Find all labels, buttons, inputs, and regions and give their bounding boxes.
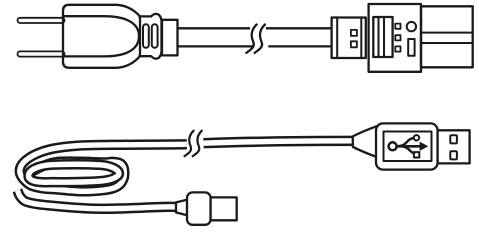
power cable top edge (right of break) — [266, 27, 332, 29]
inline connector pin window 1 — [351, 30, 357, 36]
power plug body taper/collar contour — [140, 14, 162, 59]
adapter vent line 1 — [378, 17, 380, 57]
power cable top edge (left of break) — [178, 27, 251, 29]
device connector metal shell — [211, 197, 237, 220]
power plug inner dome — [63, 16, 139, 56]
usb cable big coil ring (white core) — [20, 144, 187, 191]
usb plug label plate — [384, 132, 432, 162]
usb cable inner coil ellipse (outer black) — [29, 164, 120, 182]
usb cable break mark 1 — [185, 131, 194, 157]
usb trident main stem — [397, 145, 422, 148]
power plug rib slot 1 — [143, 24, 149, 48]
power plug body outline — [63, 5, 140, 68]
inline connector pin window 2 — [351, 41, 357, 47]
adapter indicator square 1 — [395, 24, 400, 29]
usb trident big circle — [389, 142, 397, 150]
adapter slot rectangle — [408, 39, 414, 56]
power plug prong (bottom) — [18, 51, 65, 56]
inline connector right band line — [360, 18, 362, 59]
usb trident upper branch — [400, 138, 414, 146]
device connector body — [187, 192, 211, 224]
usb plug boot funnel — [353, 126, 378, 157]
usb trident upper circle — [414, 135, 419, 140]
adapter indicator square 3 — [395, 46, 400, 51]
usb trident lower square — [414, 152, 419, 157]
usb cable inner coil ellipse (white core) — [29, 164, 120, 182]
adapter rear block line 1 — [421, 32, 473, 34]
power plug strain relief — [162, 20, 178, 56]
power cable break mark 2 — [255, 25, 265, 53]
adapter rear block — [421, 6, 473, 67]
usb trident arrowhead — [420, 142, 429, 151]
usb trident lower branch — [404, 147, 415, 154]
usb cable straight section to plug (outer black) — [204, 141, 365, 143]
adapter rear block line 2 — [421, 42, 473, 44]
power cable bottom edge (right of break) — [268, 45, 332, 47]
adapter main body — [369, 4, 421, 72]
adapter indicator square 2 — [395, 35, 400, 40]
power cable bottom edge (left of break) — [178, 45, 253, 47]
inline connector left band line — [336, 18, 338, 59]
usb cable break mark 2 — [193, 131, 202, 157]
inline connector body — [332, 18, 366, 59]
power plug prong (top) — [18, 18, 65, 23]
usb cable big coil ring (outer black) — [20, 144, 187, 191]
device connector collar — [176, 200, 188, 216]
usb cable exit sweep (outer black) — [18, 190, 177, 208]
power cable break mark 1 — [246, 25, 256, 53]
adapter vent group frame — [373, 17, 392, 57]
adapter vent line 2 — [383, 17, 385, 57]
usb shell hole 2 — [450, 151, 457, 159]
usb plug body — [376, 123, 438, 169]
power plug rib slot 2 — [152, 24, 158, 48]
usb plug metal shell — [438, 130, 470, 163]
usb shell hole 1 — [450, 135, 457, 143]
adapter round button — [407, 22, 416, 31]
usb cable exit sweep (white core) — [18, 190, 177, 208]
usb cable straight section to plug (white core) — [204, 141, 365, 143]
